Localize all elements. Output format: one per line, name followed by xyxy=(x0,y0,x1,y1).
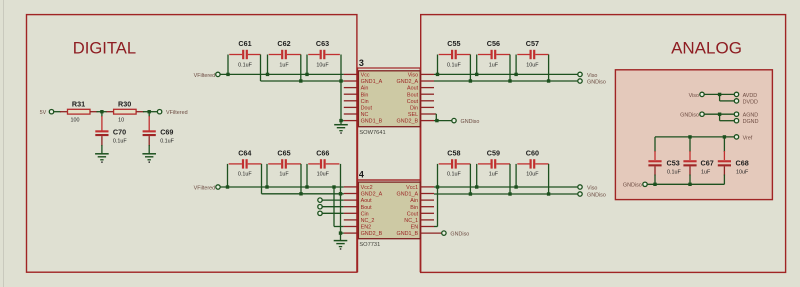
svg-text:DGND: DGND xyxy=(743,119,759,125)
svg-text:1uF: 1uF xyxy=(701,169,711,175)
node C62 left on rail xyxy=(266,73,269,76)
svg-text:NC_1: NC_1 xyxy=(404,218,418,224)
svg-text:EN2: EN2 xyxy=(361,225,372,231)
wire riser to U3 GND1_B xyxy=(341,120,344,122)
svg-text:1uF: 1uF xyxy=(489,172,499,178)
pin C67 bottom xyxy=(689,166,691,175)
wire C57 left drop xyxy=(515,55,517,75)
node ground riser on rail xyxy=(339,192,342,195)
terminal Vref xyxy=(734,135,752,142)
pin C53 bottom xyxy=(654,166,656,175)
node C67 bottom xyxy=(688,183,691,186)
wire C67 top lead xyxy=(689,137,691,152)
terminal VFiltered (output) xyxy=(157,110,187,117)
svg-text:C65: C65 xyxy=(277,149,290,158)
wire C67 bottom lead xyxy=(689,175,691,185)
ANALOG region box xyxy=(421,15,786,273)
wire ground rail to U4 GND2_A xyxy=(262,193,344,195)
wire C55 left drop xyxy=(437,55,439,75)
svg-text:10uF: 10uF xyxy=(317,172,330,178)
svg-text:1uF: 1uF xyxy=(489,62,499,68)
node C55 right xyxy=(469,79,472,82)
wire EN tie to Vcc1 rail xyxy=(437,187,439,227)
node C55 left xyxy=(436,73,439,76)
svg-text:C60: C60 xyxy=(526,149,539,158)
node junction at C69 xyxy=(148,110,151,113)
svg-text:C64: C64 xyxy=(238,149,251,158)
svg-text:Aout: Aout xyxy=(361,198,373,204)
svg-text:GND1_B: GND1_B xyxy=(361,119,383,125)
wire C53 top lead xyxy=(654,137,656,152)
terminal Viso (upper) xyxy=(578,72,598,79)
terminal GNDiso (upper rail) xyxy=(578,79,606,86)
wire C61 left drop xyxy=(227,55,229,75)
svg-text:Ain: Ain xyxy=(361,86,369,92)
terminal 5V xyxy=(40,110,54,117)
wire R30 to VFiltered xyxy=(143,111,158,113)
wire C53 bottom lead xyxy=(654,175,656,185)
wire Bout xyxy=(322,206,344,208)
window edge line xyxy=(3,0,5,287)
wire C58 left drop xyxy=(437,164,439,187)
wire C62 left drop xyxy=(267,55,269,75)
capacitor C62 xyxy=(269,39,301,68)
wire 5V to R31 xyxy=(54,111,61,113)
node C65 right on rail xyxy=(299,192,302,195)
svg-text:0.1uF: 0.1uF xyxy=(667,169,681,175)
svg-text:10: 10 xyxy=(118,118,124,124)
pin C67 top xyxy=(689,151,691,160)
svg-text:Cout: Cout xyxy=(407,211,419,217)
node C56 right xyxy=(508,79,511,82)
terminal GNDiso (analog caps) xyxy=(623,182,647,189)
node C58 right xyxy=(469,192,472,195)
ground under C70 xyxy=(95,154,109,163)
svg-text:C53: C53 xyxy=(667,159,680,168)
wire SEL tie-down xyxy=(435,113,438,115)
wire C65 left drop xyxy=(266,164,268,187)
capacitor C69 xyxy=(143,127,175,144)
svg-text:VFiltered: VFiltered xyxy=(194,185,216,191)
svg-text:Vref: Vref xyxy=(743,135,753,141)
svg-text:Cout: Cout xyxy=(407,99,419,105)
capacitor C67 xyxy=(683,159,713,176)
ground under C69 xyxy=(142,154,156,163)
svg-text:GND1_A: GND1_A xyxy=(397,192,419,198)
op-amp U3 isolation IC SOW7641 xyxy=(344,71,436,127)
wire C64 left drop xyxy=(227,164,229,187)
svg-text:C57: C57 xyxy=(526,39,539,48)
svg-text:AVDD: AVDD xyxy=(743,93,758,99)
node C64 left on rail xyxy=(226,185,229,188)
svg-text:C69: C69 xyxy=(160,127,173,136)
wire C59 right drop xyxy=(509,164,511,194)
node AGND/DGND split xyxy=(718,113,721,116)
node C67 top xyxy=(688,135,691,138)
wire C56 left drop xyxy=(476,55,478,75)
terminal AVDD xyxy=(734,92,757,99)
svg-text:Aout: Aout xyxy=(407,86,419,92)
terminal VFiltered (upper feed) xyxy=(194,72,220,79)
ground under U4 xyxy=(334,241,348,250)
svg-text:C67: C67 xyxy=(701,159,714,168)
svg-text:GNDiso: GNDiso xyxy=(450,232,469,238)
svg-text:0.1uF: 0.1uF xyxy=(238,62,252,68)
svg-text:10uF: 10uF xyxy=(526,62,539,68)
wire C69 to ground xyxy=(148,145,150,154)
wire Vref rail xyxy=(655,136,734,138)
terminal Viso (analog side) xyxy=(689,92,705,99)
terminal GNDiso (analog side) xyxy=(680,112,704,119)
svg-text:GNDiso: GNDiso xyxy=(461,119,480,125)
svg-text:Bout: Bout xyxy=(407,92,419,98)
wire C70 to ground xyxy=(101,145,103,154)
terminal DVDD xyxy=(734,99,758,106)
svg-text:Vcc2: Vcc2 xyxy=(361,185,373,191)
terminal AGND xyxy=(734,112,758,119)
svg-text:5V: 5V xyxy=(40,110,47,116)
svg-text:GNDiso: GNDiso xyxy=(587,193,606,199)
wire C58 right drop xyxy=(469,164,471,194)
svg-text:C61: C61 xyxy=(238,39,251,48)
svg-text:0.1uF: 0.1uF xyxy=(113,138,127,144)
svg-text:Viso: Viso xyxy=(587,185,597,191)
wire VFiltered rail to U4 Vcc2 xyxy=(220,186,344,188)
wire C64 right drop xyxy=(261,164,263,194)
svg-text:VFiltered: VFiltered xyxy=(166,110,188,116)
pin C68 top xyxy=(723,151,725,160)
svg-text:100: 100 xyxy=(71,118,80,124)
wire C68 top lead xyxy=(723,137,725,152)
wire R31 to R30 xyxy=(97,111,108,113)
svg-text:Bout: Bout xyxy=(361,205,373,211)
pin C68 bottom xyxy=(723,166,725,175)
terminal GNDiso (lower rail) xyxy=(578,192,606,199)
wire C66 right drop / ground riser xyxy=(340,164,342,233)
svg-text:10uF: 10uF xyxy=(316,62,329,68)
svg-text:GNDiso: GNDiso xyxy=(680,113,699,119)
wire C62 right drop xyxy=(300,55,302,82)
pin C69 top xyxy=(148,116,150,131)
capacitor C66 xyxy=(308,149,339,178)
wire GNDiso to AGND xyxy=(704,113,734,115)
node C53 bottom xyxy=(653,183,656,186)
wire C65 right drop xyxy=(300,164,302,194)
svg-text:C68: C68 xyxy=(736,159,749,168)
node C65 left on rail xyxy=(265,185,268,188)
svg-text:GND2_B: GND2_B xyxy=(361,231,383,237)
wire GNDiso rail from U3 xyxy=(434,80,578,82)
ground under U3 xyxy=(334,125,348,134)
node C59 left xyxy=(475,185,478,188)
svg-text:C58: C58 xyxy=(447,149,460,158)
pin R30 right xyxy=(136,111,144,113)
svg-text:Viso: Viso xyxy=(587,73,597,79)
svg-text:Viso: Viso xyxy=(408,73,418,79)
capacitor C61 xyxy=(229,39,260,68)
wire C63 right drop / ground riser xyxy=(340,55,342,121)
wire Viso rail from U4 Vcc1 xyxy=(434,186,578,188)
node GND1_B junction xyxy=(339,119,342,122)
svg-text:C56: C56 xyxy=(487,39,500,48)
svg-text:1uF: 1uF xyxy=(279,172,289,178)
svg-text:Vcc: Vcc xyxy=(361,73,370,79)
capacitor C70 xyxy=(95,127,127,144)
capacitor C59 xyxy=(478,149,510,178)
node C56 left xyxy=(475,73,478,76)
resistor R31 xyxy=(68,100,91,124)
svg-text:GND1_B: GND1_B xyxy=(397,231,419,237)
pin R31 right xyxy=(90,111,98,113)
wire Aout xyxy=(322,199,344,201)
svg-text:C66: C66 xyxy=(316,149,329,158)
wire C59 left drop xyxy=(476,164,478,187)
svg-text:0.1uF: 0.1uF xyxy=(160,138,174,144)
svg-text:C62: C62 xyxy=(277,39,290,48)
svg-text:SO7731: SO7731 xyxy=(359,242,380,248)
pin C70 bottom xyxy=(101,136,103,146)
node C63 left on rail xyxy=(305,73,308,76)
terminal Bout stub xyxy=(318,205,322,209)
svg-text:0.1uF: 0.1uF xyxy=(447,172,461,178)
svg-text:GND2_B: GND2_B xyxy=(397,119,419,125)
wire C70 upper lead xyxy=(101,112,103,117)
pin C70 top xyxy=(101,116,103,131)
capacitor C53 xyxy=(648,159,681,176)
node C68 top xyxy=(723,135,726,138)
capacitor C55 xyxy=(439,39,471,68)
wire C66 left drop xyxy=(306,164,308,187)
svg-text:GNDiso: GNDiso xyxy=(587,80,606,86)
svg-text:0.1uF: 0.1uF xyxy=(238,172,252,178)
svg-text:Cin: Cin xyxy=(361,211,369,217)
capacitor C58 xyxy=(439,149,471,178)
node C60 right xyxy=(547,192,550,195)
svg-text:Din: Din xyxy=(410,106,418,112)
node C62 right on rail xyxy=(299,79,302,82)
node EN2 riser on rail xyxy=(332,185,335,188)
svg-text:Ain: Ain xyxy=(410,198,418,204)
wire GNDiso bottom rail xyxy=(647,183,724,185)
svg-text:VFiltered: VFiltered xyxy=(194,73,216,79)
svg-text:Viso: Viso xyxy=(689,93,699,99)
svg-text:Dout: Dout xyxy=(361,106,373,112)
svg-text:4: 4 xyxy=(359,170,364,180)
svg-text:GNDiso: GNDiso xyxy=(623,183,642,189)
svg-text:GND2_A: GND2_A xyxy=(361,192,383,198)
svg-text:EN: EN xyxy=(411,225,419,231)
capacitor C60 xyxy=(517,149,548,178)
node SEL/GND2_B junction xyxy=(435,119,438,122)
wire C61 right drop xyxy=(260,55,262,82)
wire ground rail to U3 GND1_A xyxy=(261,80,344,82)
node C59 right xyxy=(508,192,511,195)
node C58 left xyxy=(436,185,439,188)
svg-text:C63: C63 xyxy=(316,39,329,48)
analog power sub-box xyxy=(615,70,772,200)
wire Cin xyxy=(322,212,344,214)
wire C68 bottom lead xyxy=(723,175,725,185)
wire Viso rail from U3 xyxy=(434,73,578,75)
capacitor C65 xyxy=(268,149,301,178)
wire C56 right drop xyxy=(509,55,511,82)
svg-text:AGND: AGND xyxy=(743,113,759,119)
DIGITAL region box xyxy=(27,15,357,273)
wire split to DVDD xyxy=(719,94,721,101)
terminal VFiltered (lower feed) xyxy=(194,185,221,192)
capacitor C68 xyxy=(718,159,749,176)
svg-text:Vcc1: Vcc1 xyxy=(406,185,418,191)
terminal Cin stub xyxy=(318,211,322,215)
svg-text:1uF: 1uF xyxy=(279,62,289,68)
wire C60 left drop xyxy=(515,164,517,187)
terminal Aout stub xyxy=(318,198,322,202)
svg-text:ANALOG: ANALOG xyxy=(671,38,742,57)
wire C63 left drop xyxy=(306,55,308,75)
svg-text:3: 3 xyxy=(359,58,364,68)
node C61 left on rail xyxy=(226,73,229,76)
wire C57 right drop xyxy=(548,55,550,82)
svg-text:Cin: Cin xyxy=(361,99,369,105)
svg-text:0.1uF: 0.1uF xyxy=(447,62,461,68)
capacitor C57 xyxy=(517,39,548,68)
svg-text:R30: R30 xyxy=(118,100,131,109)
svg-text:SEL: SEL xyxy=(408,112,418,118)
pin R30 left xyxy=(107,111,114,113)
node junction at C70 xyxy=(100,110,103,113)
wire C60 right drop xyxy=(548,164,550,194)
module U3 outer frame xyxy=(358,68,421,180)
node C66 left on rail xyxy=(305,185,308,188)
terminal Viso (lower) xyxy=(578,185,598,192)
capacitor C63 xyxy=(308,39,340,68)
node GND2_B junction xyxy=(339,231,342,234)
resistor R30 xyxy=(114,100,137,124)
svg-text:10uF: 10uF xyxy=(526,172,539,178)
wire GNDiso rail from U4 GND1_A xyxy=(434,193,578,195)
svg-text:GND2_A: GND2_A xyxy=(397,79,419,85)
wire riser to ground xyxy=(340,121,342,125)
pin C53 top xyxy=(654,151,656,160)
svg-text:NC: NC xyxy=(361,112,369,118)
terminal GNDiso (SEL) xyxy=(452,118,480,125)
capacitor C56 xyxy=(478,39,510,68)
node C60 left xyxy=(514,185,517,188)
node C57 right xyxy=(547,79,550,82)
wire C55 right drop xyxy=(469,55,471,82)
pin R31 left xyxy=(60,111,68,113)
node ground riser on rail xyxy=(339,79,342,82)
wire VFiltered rail to U3 Vcc xyxy=(220,73,344,75)
svg-text:DVDD: DVDD xyxy=(743,99,758,105)
terminal DGND xyxy=(734,119,758,126)
svg-text:Bin: Bin xyxy=(410,205,418,211)
wire EN2 tie to Vcc2 rail xyxy=(333,187,335,227)
node AVDD/DVDD split xyxy=(718,93,721,96)
svg-text:NC_2: NC_2 xyxy=(361,218,375,224)
svg-text:R31: R31 xyxy=(72,100,85,109)
capacitor C64 xyxy=(229,149,262,178)
op-amp U4 isolation IC SO7731 xyxy=(344,182,442,239)
wire riser to U4 GND2_B xyxy=(341,232,344,234)
svg-text:10uF: 10uF xyxy=(736,169,749,175)
module U4 outer frame xyxy=(358,180,421,272)
terminal GNDiso (U4 GND1_B) xyxy=(442,231,470,238)
wire split to DGND xyxy=(719,114,721,121)
svg-text:Bin: Bin xyxy=(361,92,369,98)
node C57 left xyxy=(514,73,517,76)
wire riser to ground xyxy=(340,233,342,241)
svg-text:C55: C55 xyxy=(447,39,460,48)
wire Viso to AVDD xyxy=(704,93,734,95)
svg-text:GND1_A: GND1_A xyxy=(361,79,383,85)
wire C69 upper lead xyxy=(148,112,150,117)
svg-text:SOW7641: SOW7641 xyxy=(359,130,385,136)
svg-text:C70: C70 xyxy=(113,127,126,136)
svg-text:DIGITAL: DIGITAL xyxy=(73,38,136,57)
svg-text:C59: C59 xyxy=(487,149,500,158)
pin C69 bottom xyxy=(148,136,150,146)
